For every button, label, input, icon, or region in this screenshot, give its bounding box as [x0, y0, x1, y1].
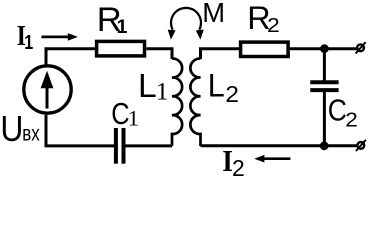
- capacitor C2: [310, 82, 338, 90]
- terminal top (open): [356, 42, 366, 53]
- label U_bx: [0, 109, 40, 149]
- arrow for current I1: [42, 33, 78, 41]
- resistor R2: [241, 42, 289, 56]
- svg-text:2: 2: [345, 109, 358, 132]
- svg-text:2: 2: [225, 83, 239, 108]
- label C2: [328, 94, 358, 131]
- resistor R1: [97, 41, 145, 56]
- label L2: [208, 68, 239, 108]
- svg-text:2: 2: [267, 13, 280, 37]
- wire: L2 top to R2: [201, 49, 240, 59]
- wire: R2 to top terminal: [288, 47, 357, 50]
- arrow for current I2: [254, 155, 290, 163]
- wire: junction to C2: [323, 49, 326, 81]
- svg-text:1: 1: [128, 106, 139, 131]
- terminal bottom (open): [356, 140, 366, 151]
- svg-text:2: 2: [232, 155, 245, 177]
- wire: L2 bottom to bottom terminal: [201, 144, 357, 147]
- wire: C2 to bottom junction: [323, 92, 326, 146]
- label R2: [247, 0, 280, 37]
- svg-text:M: M: [202, 0, 225, 28]
- label I2: [222, 144, 244, 180]
- inductor L2: [190, 59, 200, 146]
- svg-text:1: 1: [117, 16, 128, 38]
- label R1: [97, 1, 128, 39]
- junction node top: [320, 44, 329, 53]
- label I1: [17, 19, 34, 53]
- wire: source top to R1: [46, 49, 95, 66]
- svg-text:U: U: [0, 109, 23, 149]
- svg-text:C: C: [328, 94, 347, 128]
- svg-text:вх: вх: [22, 123, 40, 146]
- mutual coupling arc M: [168, 8, 204, 40]
- wire: source bottom to C1: [46, 115, 114, 146]
- inductor L1: [172, 59, 182, 146]
- svg-text:1: 1: [156, 76, 169, 105]
- label L1: [138, 68, 169, 105]
- label C1: [111, 96, 139, 131]
- svg-text:L: L: [138, 68, 157, 105]
- capacitor C1: [116, 128, 124, 164]
- junction node bottom: [320, 141, 329, 150]
- svg-text:1: 1: [24, 30, 33, 53]
- current source U_bx: [24, 66, 71, 113]
- wire: R1 to L1 top: [146, 49, 172, 59]
- wire: C1 to L1 bottom: [125, 144, 172, 147]
- svg-text:L: L: [208, 68, 225, 104]
